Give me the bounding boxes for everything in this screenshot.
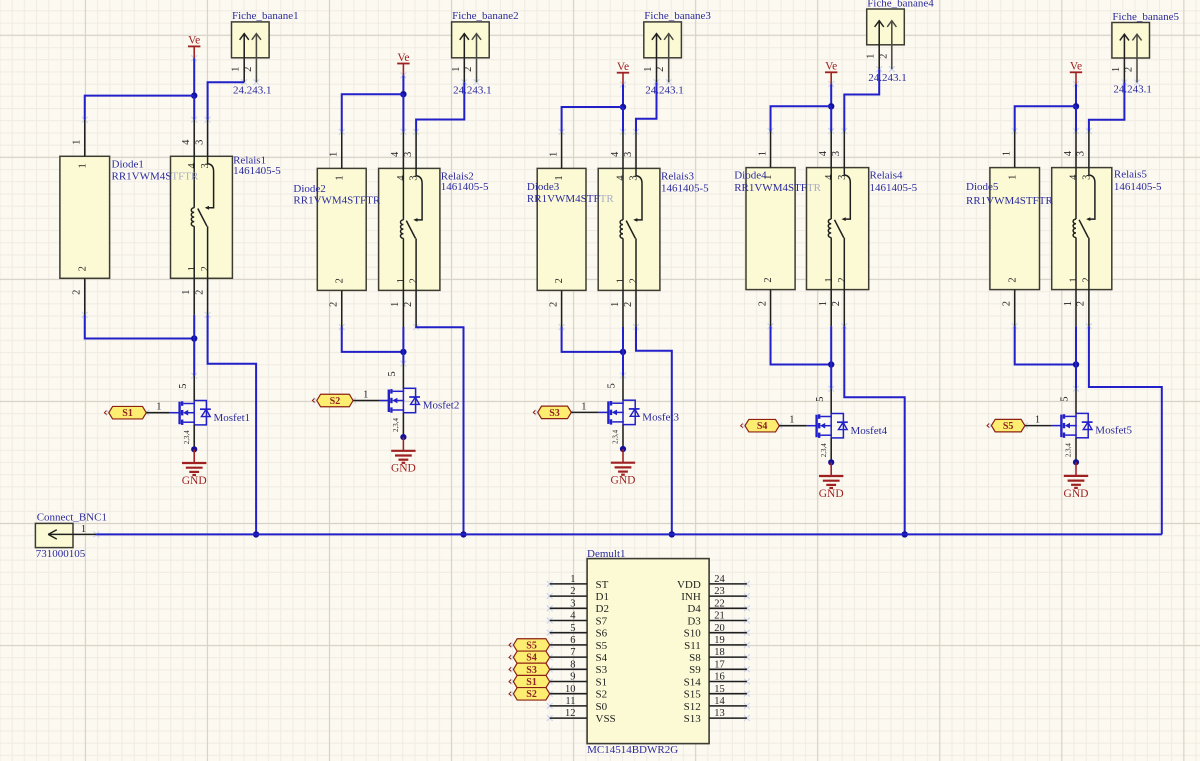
svg-text:2: 2 (1007, 277, 1018, 282)
relay Relais2 (379, 132, 440, 327)
svg-text:24.243.1: 24.243.1 (645, 85, 684, 97)
svg-text:2: 2 (463, 67, 474, 72)
Diode4 pin numbers and names (757, 151, 774, 306)
svg-text:2: 2 (763, 277, 774, 282)
svg-text:S15: S15 (684, 689, 702, 701)
svg-text:S5: S5 (1003, 421, 1014, 432)
svg-text:4: 4 (824, 174, 835, 180)
svg-text:7: 7 (570, 647, 575, 658)
Fiche_banane1 pin numbers (231, 67, 254, 72)
svg-text:S2: S2 (526, 689, 537, 700)
svg-text:1: 1 (72, 140, 83, 145)
node Ve junction (channel 2) (400, 91, 406, 97)
power Ve (channel 1) (188, 35, 200, 59)
wire Ve to node (channel 4) (830, 84, 832, 106)
svg-text:Diode2: Diode2 (293, 183, 325, 195)
Relais2 pin numbers and names (390, 151, 420, 307)
wire Relais1 pin 1 to Mosfet1 drain (193, 315, 195, 376)
svg-text:D3: D3 (687, 615, 701, 627)
Connect_BNC1 pin number 1 (81, 524, 86, 535)
connector Fiche_banane5 (1112, 23, 1150, 83)
node drain junction (channel 5) (1073, 361, 1079, 367)
svg-text:S13: S13 (684, 713, 702, 725)
svg-text:S3: S3 (549, 408, 560, 419)
svg-text:1: 1 (187, 266, 198, 271)
svg-text:MC14514BDWR2G: MC14514BDWR2G (587, 744, 678, 756)
wire S3 port to Mosfet3 gate pin 1 (571, 411, 609, 413)
svg-text:S1: S1 (122, 408, 133, 419)
wire Relais5 pin 3 to Fiche_banane5 pin 1 (1089, 82, 1125, 131)
port S1 (channel 1) (104, 406, 146, 419)
svg-text:1461405-5: 1461405-5 (870, 182, 918, 194)
Relais5 pin numbers and names (1063, 150, 1093, 306)
label Mosfet5 (1095, 425, 1132, 437)
svg-text:2: 2 (194, 290, 205, 295)
svg-text:2: 2 (200, 266, 211, 271)
wire Ve to node (channel 1) (193, 58, 195, 95)
wire Diode1 pin 2 to drain node (85, 315, 194, 339)
Demult1 pin numbers (565, 574, 726, 719)
port S1 at Demult1 (509, 675, 550, 688)
node source junction (channel 5) (1073, 459, 1079, 465)
svg-text:Fiche_banane4: Fiche_banane4 (867, 0, 934, 10)
wire node to Relais3 pin 4 (622, 107, 624, 132)
wire Diode5 pin 2 to drain node (1015, 326, 1076, 364)
pin connection markers (82, 55, 1140, 721)
svg-text:1: 1 (390, 302, 401, 307)
svg-text:24.243.1: 24.243.1 (233, 84, 272, 96)
label Diode5 designator and part number (966, 181, 1053, 207)
Mosfet3 source pin numbers 2,3,4 (612, 429, 620, 444)
label Fiche_banane2 (452, 10, 519, 22)
svg-text:1: 1 (77, 163, 88, 168)
svg-text:2: 2 (329, 302, 340, 307)
label 24.243.1 (channel 5) (1113, 83, 1152, 95)
svg-text:GND: GND (391, 463, 416, 475)
label Relais4 designator and part number (870, 169, 918, 193)
svg-text:2: 2 (77, 266, 88, 271)
node source junction (channel 2) (400, 434, 406, 440)
svg-text:S5: S5 (526, 640, 537, 651)
svg-text:1: 1 (231, 67, 242, 72)
svg-text:Mosfet4: Mosfet4 (851, 425, 888, 437)
svg-text:3: 3 (831, 151, 842, 156)
ground GND (channel 4) (819, 462, 844, 500)
wire Relais2 pin 1 to Mosfet2 drain (402, 327, 404, 364)
node Ve junction (channel 4) (828, 103, 834, 109)
svg-text:S1: S1 (526, 677, 537, 688)
transistor Mosfet5 (1061, 389, 1092, 463)
port S2 at Demult1 (509, 688, 550, 701)
relay Relais5 (1052, 131, 1112, 326)
Diode1 pin numbers and names (72, 140, 89, 295)
svg-text:1: 1 (1007, 175, 1018, 180)
Relais3 pin numbers and names (610, 151, 640, 307)
node drain junction (channel 2) (400, 349, 406, 355)
svg-text:3: 3 (1076, 151, 1087, 156)
node bus junction (channel 2) (460, 531, 466, 537)
svg-text:24.243.1: 24.243.1 (1113, 83, 1152, 95)
svg-text:4: 4 (610, 151, 621, 157)
label 731000105 (36, 548, 86, 560)
svg-text:1: 1 (81, 524, 86, 535)
Fiche_banane3 pin numbers (643, 67, 666, 72)
wire node to Relais1 pin 4 (193, 96, 195, 120)
svg-text:13: 13 (714, 708, 725, 719)
svg-text:RR1VWM4STFTR: RR1VWM4STFTR (966, 195, 1053, 207)
svg-text:5: 5 (387, 371, 398, 376)
port S3 (channel 3) (533, 406, 571, 419)
svg-text:3: 3 (403, 152, 414, 157)
svg-text:Diode3: Diode3 (527, 181, 560, 193)
label Mosfet4 (851, 425, 888, 437)
wire Relais4 pin 2 to output bus (844, 326, 904, 534)
wire Relais2 pin 2 to output bus (416, 327, 463, 534)
node Ve junction (channel 5) (1073, 103, 1079, 109)
svg-text:17: 17 (714, 659, 725, 670)
label Relais2 designator and part number (441, 170, 489, 193)
svg-text:5: 5 (1060, 396, 1071, 401)
wire Relais5 pin 2 to output bus (1089, 326, 1162, 534)
svg-text:2: 2 (72, 290, 83, 295)
svg-text:Mosfet2: Mosfet2 (423, 400, 460, 412)
svg-text:9: 9 (570, 672, 575, 683)
svg-text:GND: GND (1064, 488, 1089, 500)
Mosfet2 drain pin number 5 (387, 371, 398, 376)
svg-text:2: 2 (831, 301, 842, 306)
svg-text:Ve: Ve (825, 61, 837, 73)
diode Diode2 (317, 132, 366, 327)
Mosfet2 source pin numbers 2,3,4 (392, 418, 400, 433)
svg-text:2: 2 (334, 278, 345, 283)
label Connect_BNC1 (37, 512, 107, 524)
node bus junction (channel 1) (253, 531, 259, 537)
wire Diode4 pin 2 to drain node (771, 326, 832, 364)
svg-text:2: 2 (757, 301, 768, 306)
svg-text:24: 24 (714, 574, 725, 585)
svg-text:Diode4: Diode4 (734, 169, 767, 181)
wire S1 port to Mosfet1 gate pin 1 (146, 412, 181, 414)
svg-text:2,3,4: 2,3,4 (1065, 443, 1073, 458)
wire S4 port to Mosfet4 gate pin 1 (779, 425, 818, 427)
svg-text:1461405-5: 1461405-5 (661, 183, 709, 195)
svg-text:S0: S0 (596, 701, 608, 713)
svg-text:S14: S14 (684, 676, 702, 688)
svg-text:2,3,4: 2,3,4 (820, 443, 828, 458)
connector Fiche_banane4 (867, 9, 905, 69)
Mosfet3 gate pin number 1 (581, 401, 586, 412)
relay Relais1 (171, 120, 233, 315)
svg-text:GND: GND (182, 475, 207, 487)
svg-text:1: 1 (554, 175, 565, 180)
wire Diode3 pin 2 to drain node (562, 327, 623, 352)
svg-text:1: 1 (1002, 151, 1013, 156)
svg-text:2,3,4: 2,3,4 (392, 418, 400, 433)
svg-text:3: 3 (629, 175, 640, 180)
wire Relais2 pin 3 to Fiche_banane2 pin 1 (416, 82, 464, 132)
Mosfet5 source pin numbers 2,3,4 (1065, 443, 1073, 458)
svg-text:4: 4 (396, 175, 407, 181)
svg-text:2: 2 (570, 586, 575, 597)
svg-text:Relais3: Relais3 (661, 170, 694, 182)
wire Diode2 pin 2 to drain node (342, 327, 404, 352)
power Ve (channel 4) (825, 61, 837, 85)
svg-text:1: 1 (156, 402, 161, 413)
label Relais3 designator and part number (661, 170, 709, 194)
svg-text:Relais4: Relais4 (870, 169, 903, 181)
svg-text:1: 1 (610, 302, 621, 307)
svg-text:1461405-5: 1461405-5 (1114, 181, 1162, 193)
svg-text:4: 4 (187, 163, 198, 169)
svg-text:S3: S3 (526, 665, 537, 676)
power Ve (channel 3) (617, 61, 629, 85)
label Mosfet2 (423, 400, 460, 412)
svg-text:2: 2 (243, 67, 254, 72)
label 24.243.1 (channel 3) (645, 85, 684, 97)
label Demult1 (587, 548, 626, 560)
diode Diode5 (990, 131, 1040, 326)
svg-text:D2: D2 (596, 603, 609, 615)
svg-text:2: 2 (409, 278, 420, 283)
svg-text:1: 1 (789, 415, 794, 426)
wire Relais4 pin 1 to Mosfet4 drain (830, 326, 832, 389)
Fiche_banane2 pin numbers (451, 67, 474, 72)
ground GND (channel 5) (1064, 462, 1089, 500)
svg-text:5: 5 (607, 383, 618, 388)
power Ve (channel 5) (1070, 61, 1082, 85)
svg-text:21: 21 (714, 611, 725, 622)
wire node to Diode2 pin 1 (342, 94, 404, 132)
svg-text:Ve: Ve (397, 52, 409, 64)
svg-text:23: 23 (714, 586, 725, 597)
svg-text:12: 12 (565, 708, 576, 719)
svg-text:S6: S6 (596, 628, 608, 640)
svg-text:Diode1: Diode1 (112, 159, 144, 171)
wire Relais3 pin 2 to output bus (636, 327, 672, 534)
svg-text:Fiche_banane5: Fiche_banane5 (1112, 11, 1179, 23)
svg-text:Fiche_banane2: Fiche_banane2 (452, 10, 519, 22)
svg-text:Relais5: Relais5 (1114, 168, 1147, 180)
wire node to Diode1 pin 1 (85, 96, 194, 120)
transistor Mosfet2 (389, 364, 420, 438)
svg-text:D1: D1 (596, 591, 609, 603)
Mosfet4 gate pin number 1 (789, 415, 794, 426)
svg-text:GND: GND (819, 488, 844, 500)
svg-text:4: 4 (616, 175, 627, 181)
svg-text:1: 1 (181, 290, 192, 295)
connector Fiche_banane1 (232, 22, 270, 82)
svg-text:Connect_BNC1: Connect_BNC1 (37, 512, 107, 524)
svg-text:1: 1 (1063, 301, 1074, 306)
diode Diode3 (537, 132, 586, 327)
svg-text:4: 4 (1063, 150, 1074, 156)
svg-text:2: 2 (548, 302, 559, 307)
label 24.243.1 (channel 2) (453, 85, 492, 97)
svg-text:1: 1 (757, 151, 768, 156)
node Ve junction (channel 1) (191, 92, 197, 98)
node drain junction (channel 4) (828, 361, 834, 367)
wire S2 port to Mosfet2 gate pin 1 (353, 400, 390, 402)
label Fiche_banane3 (644, 10, 711, 22)
svg-text:2: 2 (1082, 277, 1093, 282)
svg-text:19: 19 (714, 635, 725, 646)
label Mosfet3 (642, 412, 679, 424)
node bus junction (channel 4) (902, 531, 908, 537)
wire Relais3 pin 1 to Mosfet3 drain (622, 327, 624, 376)
node bus junction (channel 3) (669, 531, 675, 537)
port S5 (channel 5) (987, 419, 1025, 432)
port S4 at Demult1 (509, 651, 550, 664)
wire Ve to node (channel 2) (402, 75, 404, 94)
svg-text:14: 14 (714, 696, 725, 707)
Mosfet4 drain pin number 5 (815, 397, 826, 402)
svg-text:S12: S12 (684, 701, 701, 713)
svg-text:VDD: VDD (677, 579, 701, 591)
svg-text:2: 2 (1124, 67, 1135, 72)
svg-text:S4: S4 (526, 653, 537, 664)
svg-text:1: 1 (824, 277, 835, 282)
svg-text:1: 1 (866, 54, 877, 59)
wire Relais3 pin 3 to Fiche_banane3 pin 1 (636, 82, 657, 132)
svg-text:1: 1 (818, 301, 829, 306)
svg-text:20: 20 (714, 623, 725, 634)
ground GND (channel 3) (611, 449, 636, 487)
svg-text:22: 22 (714, 598, 725, 609)
label Diode2 designator and part number (293, 183, 380, 207)
wire node to Diode3 pin 1 (562, 107, 623, 132)
diode Diode1 (60, 120, 110, 315)
svg-text:5: 5 (178, 384, 189, 389)
svg-text:GND: GND (611, 475, 636, 487)
svg-text:S5: S5 (596, 640, 608, 652)
svg-text:1: 1 (1035, 415, 1040, 426)
wire Ve to node (channel 3) (622, 85, 624, 108)
transistor Mosfet4 (817, 389, 848, 463)
svg-text:2: 2 (554, 278, 565, 283)
svg-text:Ve: Ve (1070, 61, 1082, 73)
svg-text:2: 2 (837, 277, 848, 282)
svg-text:1: 1 (548, 152, 559, 157)
svg-text:Fiche_banane3: Fiche_banane3 (644, 10, 711, 22)
svg-text:4: 4 (181, 139, 192, 145)
label Fiche_banane5 (1112, 11, 1179, 23)
svg-text:10: 10 (565, 684, 576, 695)
svg-text:Mosfet5: Mosfet5 (1095, 425, 1132, 437)
label Diode3 designator and part number (527, 181, 614, 205)
svg-text:3: 3 (623, 152, 634, 157)
node drain junction (channel 1) (191, 335, 197, 341)
node source junction (channel 1) (191, 446, 197, 452)
svg-text:S3: S3 (596, 664, 608, 676)
svg-text:24.243.1: 24.243.1 (868, 72, 907, 84)
Mosfet1 drain pin number 5 (178, 384, 189, 389)
node source junction (channel 4) (828, 459, 834, 465)
Mosfet3 drain pin number 5 (607, 383, 618, 388)
label Relais5 designator and part number (1114, 168, 1162, 193)
wire Relais5 pin 1 to Mosfet5 drain (1075, 326, 1077, 389)
svg-text:RR1VWM4STFTR: RR1VWM4STFTR (527, 193, 614, 205)
svg-text:S9: S9 (689, 664, 701, 676)
svg-text:Ve: Ve (617, 61, 629, 73)
svg-text:2: 2 (403, 302, 414, 307)
svg-text:1: 1 (643, 67, 654, 72)
svg-text:3: 3 (194, 140, 205, 145)
node drain junction (channel 3) (620, 349, 626, 355)
svg-text:1: 1 (396, 278, 407, 283)
Diode2 pin numbers and names (329, 152, 346, 307)
svg-text:S4: S4 (757, 421, 768, 432)
Mosfet5 drain pin number 5 (1060, 396, 1071, 401)
port S3 at Demult1 (509, 663, 550, 676)
label Diode4 designator and part number (734, 169, 821, 194)
Mosfet1 source pin numbers 2,3,4 (183, 430, 191, 445)
svg-text:4: 4 (1069, 174, 1080, 180)
Mosfet1 gate pin number 1 (156, 402, 161, 413)
wire output bus from Connect_BNC1 across sheet (96, 533, 1162, 535)
svg-text:6: 6 (570, 635, 575, 646)
svg-text:1: 1 (616, 278, 627, 283)
svg-text:S11: S11 (684, 640, 701, 652)
svg-text:Demult1: Demult1 (587, 548, 626, 560)
svg-text:Mosfet3: Mosfet3 (642, 412, 679, 424)
svg-text:731000105: 731000105 (36, 548, 86, 560)
node source junction (channel 3) (620, 446, 626, 452)
svg-text:S7: S7 (596, 615, 608, 627)
svg-text:3: 3 (409, 175, 420, 180)
label 24.243.1 (channel 4) (868, 72, 907, 84)
Mosfet5 gate pin number 1 (1035, 415, 1040, 426)
svg-text:1: 1 (581, 401, 586, 412)
Diode5 pin numbers and names (1002, 151, 1019, 306)
wire Relais1 pin 2 to output bus (208, 315, 257, 535)
IC Demult1 MC14514BDWR2G (550, 559, 747, 744)
svg-text:16: 16 (714, 672, 725, 683)
svg-text:INH: INH (681, 591, 701, 603)
svg-text:1461405-5: 1461405-5 (233, 165, 281, 177)
svg-text:1: 1 (1111, 67, 1122, 72)
wire node to Relais2 pin 4 (402, 94, 404, 132)
node Ve junction (channel 3) (620, 104, 626, 110)
connector Connect_BNC1 (35, 523, 96, 547)
label 24.243.1 (channel 1) (233, 84, 272, 96)
transistor Mosfet1 (180, 376, 211, 450)
svg-text:1: 1 (1069, 277, 1080, 282)
ground GND (channel 1) (182, 449, 207, 487)
port S4 (channel 4) (741, 419, 780, 432)
svg-text:S2: S2 (330, 396, 341, 407)
wire Ve to node (channel 5) (1075, 84, 1077, 106)
label Fiche_banane4 (867, 0, 934, 10)
svg-text:4: 4 (390, 151, 401, 157)
svg-text:S2: S2 (596, 689, 608, 701)
svg-text:1: 1 (334, 175, 345, 180)
transistor Mosfet3 (608, 376, 639, 450)
Relais1 pin numbers and names (181, 139, 211, 295)
svg-text:2: 2 (655, 67, 666, 72)
svg-text:2: 2 (623, 302, 634, 307)
svg-text:18: 18 (714, 647, 725, 658)
wire node to Relais4 pin 4 (830, 106, 832, 131)
power Ve (channel 2) (397, 52, 409, 76)
svg-text:Mosfet1: Mosfet1 (214, 412, 251, 424)
wire node to Relais5 pin 4 (1075, 106, 1077, 131)
svg-text:2,3,4: 2,3,4 (183, 430, 191, 445)
port S5 at Demult1 (509, 639, 550, 652)
svg-text:3: 3 (570, 598, 575, 609)
svg-text:D4: D4 (687, 603, 701, 615)
Relais4 pin numbers and names (818, 150, 848, 306)
svg-text:RR1VWM4STFTR: RR1VWM4STFTR (734, 182, 821, 194)
